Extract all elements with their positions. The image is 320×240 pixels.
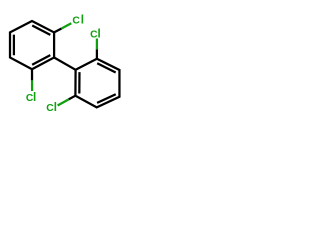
benzene ring 2 (right) outline xyxy=(75,59,119,108)
ring1 double bond inner line 6-1 xyxy=(13,35,15,56)
svg-text:l: l xyxy=(98,27,101,40)
bond to Cl bottom-right xyxy=(69,96,76,100)
svg-text:C: C xyxy=(72,16,80,27)
ring2 double bond inner line 2-3 xyxy=(97,63,116,72)
bond to Cl top-right xyxy=(96,49,98,59)
ring1 double bond inner line 2-3 xyxy=(32,26,50,35)
bond to Cl bottom-left xyxy=(31,69,33,80)
svg-text:l: l xyxy=(33,91,36,104)
ring1 double bond inner line 4-5 xyxy=(32,55,50,65)
bond to Cl top-left xyxy=(54,28,61,32)
svg-text:l: l xyxy=(54,101,57,114)
biphenyl C-C bond xyxy=(54,58,76,70)
svg-text:l: l xyxy=(81,14,84,27)
ring2 double bond inner line 4-5 xyxy=(97,94,116,103)
ring2 double bond inner line 6-1 xyxy=(78,72,80,93)
benzene ring 1 (left) outline xyxy=(10,21,54,69)
